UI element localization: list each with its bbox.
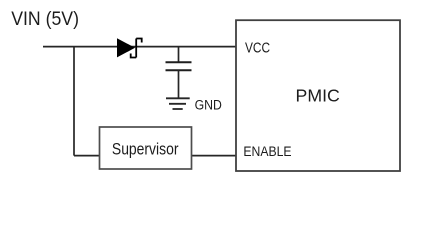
svg-text:GND: GND bbox=[195, 97, 222, 113]
svg-text:VCC: VCC bbox=[245, 39, 270, 55]
svg-text:Supervisor: Supervisor bbox=[112, 140, 179, 158]
svg-text:ENABLE: ENABLE bbox=[243, 143, 291, 159]
svg-text:VIN (5V): VIN (5V) bbox=[11, 7, 79, 29]
svg-text:PMIC: PMIC bbox=[296, 86, 340, 106]
